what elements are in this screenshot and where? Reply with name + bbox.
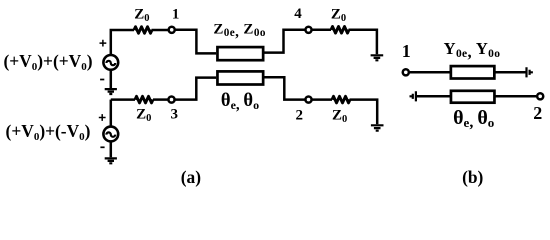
svg-text:2: 2 (296, 107, 304, 123)
port 1 (b) (403, 69, 409, 75)
svg-text:Z0: Z0 (331, 7, 346, 25)
svg-text:1: 1 (402, 41, 411, 61)
node 2 (305, 97, 311, 103)
wire (416, 95, 536, 98)
resistor R bottom-left Z0 (135, 96, 153, 103)
wire (153, 98, 169, 101)
port 2 (b) (537, 93, 543, 99)
source V1 (100, 40, 119, 80)
svg-text:θe, θo: θe, θo (221, 91, 259, 113)
svg-text:(+V0)+(-V0): (+V0)+(-V0) (6, 121, 91, 143)
coupled line Y0e,Y0o (top bar) (451, 66, 495, 78)
wire (312, 98, 332, 101)
svg-text:θe, θo: θe, θo (453, 107, 494, 131)
coupled line (b bottom bar) (451, 91, 495, 103)
wire (410, 71, 527, 74)
resistor R bottom-right Z0 (332, 96, 350, 103)
node 3 (168, 97, 174, 103)
svg-text:(b): (b) (462, 167, 483, 187)
svg-text:Z0e, Z0o: Z0e, Z0o (213, 21, 265, 40)
ground (top-right) (371, 55, 384, 60)
node 1 (169, 27, 175, 33)
svg-text:Z0: Z0 (134, 7, 149, 25)
svg-text:2: 2 (533, 103, 542, 123)
wire (312, 29, 331, 32)
coupled line Z0e,Z0o (top bar) (217, 47, 263, 60)
wire (349, 30, 377, 55)
short-circuit end (b bottom-left) (411, 91, 416, 101)
svg-text:(a): (a) (181, 167, 201, 187)
svg-text:Z0: Z0 (136, 106, 151, 124)
wire (111, 98, 135, 101)
wire (174, 78, 216, 100)
svg-text:Y0e, Y0o: Y0e, Y0o (444, 39, 501, 61)
wire (111, 30, 134, 55)
svg-text:3: 3 (170, 106, 178, 122)
wire (152, 29, 169, 32)
short-circuit end (b top-right) (527, 67, 532, 77)
coupled line θe,θo (bottom bar) (217, 71, 263, 84)
source V2 (99, 100, 118, 148)
ground (under V2) (105, 141, 117, 163)
ground (under V1) (105, 70, 117, 94)
wire (350, 100, 378, 125)
ground (bottom-right) (371, 125, 384, 130)
wire (265, 30, 305, 53)
svg-text:1: 1 (172, 7, 180, 23)
resistor R top-left Z0 (134, 27, 152, 34)
svg-text:(+V0)+(+V0): (+V0)+(+V0) (3, 51, 92, 73)
node 4 (305, 27, 311, 33)
wire (265, 77, 305, 99)
svg-text:4: 4 (294, 6, 302, 22)
resistor R top-right Z0 (331, 26, 349, 33)
wire (175, 30, 217, 54)
svg-text:Z0: Z0 (332, 107, 347, 125)
